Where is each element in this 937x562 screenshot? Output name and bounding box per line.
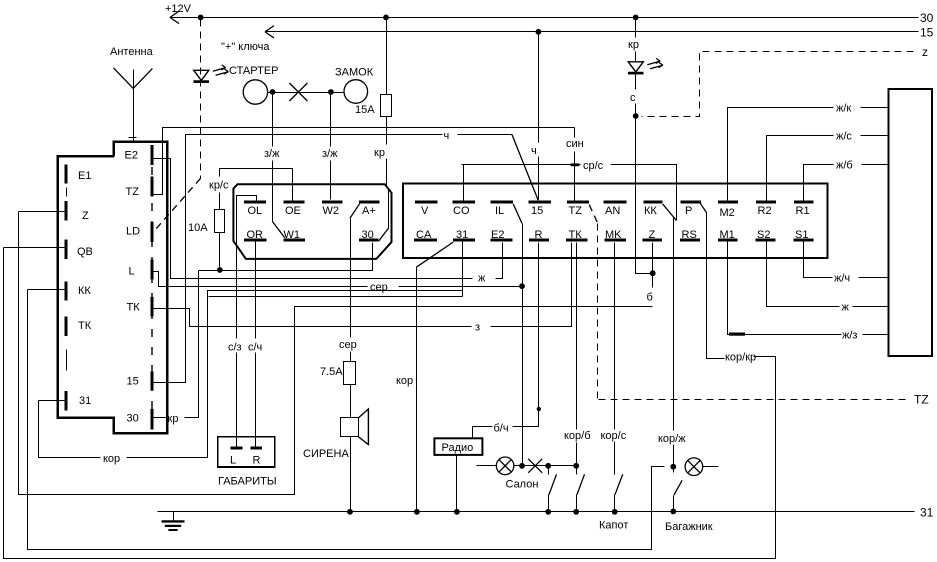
pin TK center xyxy=(566,229,588,241)
svg-text:7.5A: 7.5A xyxy=(320,366,343,378)
node zh-ch label xyxy=(834,273,850,285)
LED HL2 symbol xyxy=(628,58,663,73)
wire pin 31 exit left xyxy=(39,400,67,402)
svg-text:кр/с: кр/с xyxy=(209,180,229,192)
pin RS xyxy=(680,229,700,241)
svg-text:31: 31 xyxy=(79,395,91,407)
junction SA2 rail xyxy=(573,509,579,515)
wire salon line xyxy=(514,465,577,467)
pin KK center xyxy=(643,202,662,217)
svg-text:сер: сер xyxy=(370,282,388,294)
LED HL2 red wire from 30 rail xyxy=(633,15,639,62)
fuse F1 15A body xyxy=(381,95,392,117)
svg-text:кор/с: кор/с xyxy=(601,430,627,442)
svg-text:син: син xyxy=(566,138,584,150)
svg-text:кр: кр xyxy=(374,147,385,159)
svg-text:L: L xyxy=(230,455,236,467)
wire z-zh starter to W1 and OE branch xyxy=(273,93,293,238)
fuse F2 10A label xyxy=(188,222,208,234)
svg-text:Капот: Капот xyxy=(599,520,628,532)
connector X1 left block outline xyxy=(58,142,168,434)
wire salon lamp stub left xyxy=(477,465,497,467)
svg-text:б/ч: б/ч xyxy=(494,423,509,435)
svg-text:Антенна: Антенна xyxy=(110,46,154,58)
svg-text:z: z xyxy=(922,45,928,59)
node kor-b label xyxy=(564,430,591,442)
svg-text:31: 31 xyxy=(920,506,934,520)
svg-text:S1: S1 xyxy=(795,229,808,241)
node +12V label xyxy=(165,3,192,15)
pin P xyxy=(681,202,701,217)
node Antenna label xyxy=(110,46,154,58)
node zh-s label xyxy=(836,131,852,143)
node z label right xyxy=(922,45,928,59)
svg-text:з/ж: з/ж xyxy=(264,148,280,160)
radio box xyxy=(434,438,482,455)
svg-text:30: 30 xyxy=(362,229,374,241)
svg-text:M2: M2 xyxy=(720,207,735,219)
node 15 label right xyxy=(920,26,934,40)
pin OE xyxy=(283,202,304,217)
svg-text:AN: AN xyxy=(605,205,620,217)
pin E1 xyxy=(66,165,91,184)
junction salon IL xyxy=(519,463,525,469)
svg-text:R2: R2 xyxy=(758,205,772,217)
wire LED2 net down to b junction xyxy=(636,117,653,274)
svg-text:R: R xyxy=(253,455,261,467)
fuse F3 7.5A label xyxy=(320,366,343,378)
pin L gabarity xyxy=(230,448,243,467)
pin S1 xyxy=(794,229,814,241)
wire z-zh lock to W2 xyxy=(330,93,332,200)
svg-text:з: з xyxy=(475,322,480,334)
node trunk label xyxy=(665,521,713,533)
svg-text:Салон: Салон xyxy=(506,479,539,491)
node b label xyxy=(647,292,653,304)
wire pin Z exit left xyxy=(19,211,67,213)
junction salon switch A xyxy=(545,463,551,469)
node b-ch label xyxy=(494,423,509,435)
pin 15 left block xyxy=(127,372,152,391)
svg-text:кор/кр: кор/кр xyxy=(725,352,756,364)
svg-text:30: 30 xyxy=(920,11,934,25)
svg-text:кор/б: кор/б xyxy=(564,430,591,442)
connector X3 center block 2 outline xyxy=(403,184,827,259)
svg-text:ТК: ТК xyxy=(78,320,92,332)
siren BA1 symbol xyxy=(341,409,369,445)
left block pin column dashed right xyxy=(151,167,153,427)
wire R1 up zh-b xyxy=(804,165,889,203)
svg-text:TZ: TZ xyxy=(914,393,929,407)
starter label xyxy=(229,65,279,77)
node kor-kr label xyxy=(725,352,756,364)
wire 31 center diagonal to kor xyxy=(417,242,454,511)
svg-text:кор/ж: кор/ж xyxy=(658,433,686,445)
svg-text:P: P xyxy=(685,205,692,217)
pin E2 center xyxy=(491,229,513,241)
wire kr from 30 rail through fuse to pin 30 center xyxy=(379,18,389,242)
wire LED2 cathode down to z junction xyxy=(635,74,637,117)
wire QB return to kor-kr bottom xyxy=(4,248,776,559)
svg-text:кр: кр xyxy=(168,413,179,425)
pin M2 xyxy=(718,202,738,219)
wire M1 down zh-z xyxy=(728,242,889,335)
node 31 label right xyxy=(920,506,934,520)
svg-text:ТК: ТК xyxy=(569,229,583,241)
connector X4 right block xyxy=(889,89,933,356)
node gabarity label xyxy=(218,476,277,488)
svg-text:ч: ч xyxy=(444,130,450,142)
node zh label xyxy=(478,273,486,285)
lamp trunk xyxy=(685,458,718,476)
junction fuse wire on 30 rail xyxy=(383,15,389,21)
wire E2 left to zh line to E2 center xyxy=(153,159,503,297)
svg-text:Багажник: Багажник xyxy=(665,521,713,533)
svg-text:M1: M1 xyxy=(720,229,735,241)
pin TZ left block xyxy=(126,177,152,199)
wire 31 rail xyxy=(158,511,915,513)
svg-text:A+: A+ xyxy=(362,205,376,217)
node kr label LED2 xyxy=(628,39,639,51)
svg-text:TZ: TZ xyxy=(126,186,140,198)
node kor label 1 xyxy=(396,375,413,387)
svg-text:E2: E2 xyxy=(491,229,504,241)
starter circle SW1 xyxy=(243,80,267,104)
node s-ch label xyxy=(248,342,262,354)
svg-text:15: 15 xyxy=(920,26,934,40)
node zh-z label xyxy=(842,330,857,342)
wire Z center down to b junction xyxy=(652,243,654,274)
pin OR xyxy=(244,229,266,241)
pin CO xyxy=(452,202,475,217)
node s label LED2 xyxy=(630,92,636,104)
node ser label 1 xyxy=(370,282,388,294)
svg-text:OE: OE xyxy=(285,205,301,217)
svg-text:с/ч: с/ч xyxy=(248,342,262,354)
wire 31 pin to kor line xyxy=(39,291,463,458)
wire dashed from 30 rail down to LD xyxy=(155,20,201,231)
svg-text:CO: CO xyxy=(453,205,470,217)
svg-text:КК: КК xyxy=(644,205,657,217)
wire KK diagonal to kor-zh down xyxy=(663,204,677,467)
wire 15 rail xyxy=(265,26,919,38)
wire KK return to trunk lamp xyxy=(28,290,665,550)
node kor-s label xyxy=(601,430,627,442)
switch SA1 salon door xyxy=(549,466,557,512)
svg-text:31: 31 xyxy=(456,229,468,241)
node hood label xyxy=(599,520,628,532)
svg-text:ТК: ТК xyxy=(127,302,141,314)
pin W2 xyxy=(322,202,343,217)
svg-text:кор: кор xyxy=(103,453,120,465)
antenna symbol xyxy=(114,68,153,142)
node salon label xyxy=(506,479,539,491)
svg-text:б: б xyxy=(647,292,653,304)
node kor-zh label xyxy=(658,433,686,445)
wire radio top to b-ch xyxy=(473,407,542,439)
wire ch 15 left block to pin 15 center xyxy=(153,135,539,383)
junction lock wire xyxy=(328,89,334,95)
svg-text:+12V: +12V xyxy=(165,3,192,15)
svg-text:СТАРТЕР: СТАРТЕР xyxy=(229,65,279,77)
wire starter to lock with cut symbol xyxy=(268,92,345,94)
cut symbol X salon xyxy=(528,459,542,473)
pin TK left-col xyxy=(66,317,92,337)
wire S1 down zh-ch xyxy=(804,242,889,278)
pin KK left xyxy=(66,282,91,301)
switch SA2 door xyxy=(577,466,585,512)
lock label xyxy=(335,67,374,79)
junction siren rail xyxy=(347,509,353,515)
svg-text:MK: MK xyxy=(605,229,622,241)
junction 15 rail to ch wire xyxy=(536,29,542,35)
node zh-b label xyxy=(836,160,853,172)
svg-text:Z: Z xyxy=(82,210,89,222)
cut symbol X starter-lock xyxy=(289,83,307,101)
svg-text:V: V xyxy=(421,205,429,217)
node radio label xyxy=(442,442,474,454)
node z green label xyxy=(475,322,480,334)
pin CA xyxy=(414,229,437,241)
svg-text:OL: OL xyxy=(248,205,263,217)
pin 31 center xyxy=(453,229,475,241)
wire pin 30 left block kr xyxy=(153,271,199,418)
wire MK down kor-s xyxy=(614,243,616,475)
svg-text:R: R xyxy=(535,229,543,241)
pin MK xyxy=(604,229,625,241)
pin R2 xyxy=(756,202,776,217)
svg-text:RS: RS xyxy=(682,229,697,241)
wire 30 rail xyxy=(170,11,919,23)
svg-text:с: с xyxy=(630,92,636,104)
node TZ label right xyxy=(914,393,929,407)
junction dashed rail on 30 xyxy=(198,15,204,21)
junction starter wire xyxy=(270,89,276,95)
wire CO up to sr-s line xyxy=(462,165,677,221)
node sr-s label xyxy=(583,160,604,172)
pin IL xyxy=(491,202,514,217)
svg-text:сер: сер xyxy=(339,339,357,351)
svg-text:W2: W2 xyxy=(323,205,340,217)
wire 30 net horizontal to center block xyxy=(199,243,373,271)
pin LD xyxy=(126,222,152,242)
connector X2 center block 1 outline xyxy=(233,184,391,259)
junction ser IL xyxy=(519,283,525,289)
svg-text:S2: S2 xyxy=(757,229,770,241)
junction kor rail xyxy=(414,509,420,515)
svg-text:Радио: Радио xyxy=(442,442,474,454)
svg-text:10A: 10A xyxy=(188,222,208,234)
wire gabarity feed xyxy=(209,296,463,298)
pin Z left xyxy=(66,201,89,222)
fuse F2 10A body xyxy=(215,210,225,233)
svg-text:ж/з: ж/з xyxy=(842,330,857,342)
fuse F1 15A label xyxy=(355,104,375,116)
switch SA3 hood xyxy=(615,474,623,511)
svg-text:з/ж: з/ж xyxy=(322,148,338,160)
svg-text:КК: КК xyxy=(78,285,91,297)
pin 30 center xyxy=(359,229,379,241)
wire syn TZ left block to TZ center xyxy=(153,128,580,203)
svg-text:ж/к: ж/к xyxy=(836,103,851,115)
wire M2 up zh-k xyxy=(728,108,889,203)
pin W1 xyxy=(283,229,305,241)
svg-text:ср/с: ср/с xyxy=(583,160,604,172)
fuse F3 7.5A body xyxy=(344,362,356,385)
wire TK center down kor-b xyxy=(576,243,578,466)
wire z dashed rail xyxy=(642,52,914,117)
pin S2 xyxy=(755,229,775,241)
junction SA1 rail xyxy=(545,509,551,515)
wire S2 down zh xyxy=(767,242,889,307)
node kr-s label xyxy=(209,180,229,192)
svg-text:"+" ключа: "+" ключа xyxy=(221,41,270,53)
pin TZ center xyxy=(567,202,589,217)
pin Z center xyxy=(643,229,662,241)
wire L pin to ser line xyxy=(153,272,522,287)
svg-text:Z: Z xyxy=(649,229,656,241)
svg-text:ж: ж xyxy=(478,273,486,285)
svg-text:30: 30 xyxy=(127,413,139,425)
pin TK left block right-col xyxy=(127,297,152,317)
node s-z label xyxy=(228,342,242,354)
svg-text:QB: QB xyxy=(77,246,93,258)
switch SA4 trunk xyxy=(674,467,683,512)
svg-text:CA: CA xyxy=(416,229,432,241)
junction b net xyxy=(650,270,656,276)
pin M1 xyxy=(718,229,737,241)
node kr label pin30 xyxy=(168,413,179,425)
svg-text:R1: R1 xyxy=(796,205,810,217)
wire TK left to z line to TK center xyxy=(153,243,572,327)
wire R2 up zh-s xyxy=(767,136,889,203)
svg-text:ГАБАРИТЫ: ГАБАРИТЫ xyxy=(218,476,277,488)
wire pin KK exit left xyxy=(28,289,67,291)
left block pin column dashed left xyxy=(66,188,68,371)
wire pin QB exit left xyxy=(4,247,67,249)
wire fuse 10A top kr-s xyxy=(220,169,273,271)
svg-text:IL: IL xyxy=(495,205,504,217)
node z-zh label 2 xyxy=(322,148,338,160)
svg-text:E2: E2 xyxy=(125,150,138,162)
wire ch vertical from 15 rail to pin 15 xyxy=(538,32,540,200)
wire radio to ground rail xyxy=(456,455,458,512)
pin 15 center xyxy=(528,202,551,217)
wire Z return to b net bottom xyxy=(19,212,653,495)
svg-text:L: L xyxy=(129,266,135,278)
svg-text:OR: OR xyxy=(247,229,264,241)
ground symbol xyxy=(162,512,185,531)
node kr label fuse wire xyxy=(374,147,385,159)
wire P diagonal down kor-kr xyxy=(701,204,725,359)
svg-text:ж/с: ж/с xyxy=(836,131,852,143)
svg-text:ЗАМОК: ЗАМОК xyxy=(335,67,374,79)
pin R1 xyxy=(794,202,814,217)
pin V xyxy=(415,202,438,217)
node kor label bottom left xyxy=(103,453,120,465)
wire R down to b-ch radio xyxy=(473,243,539,439)
svg-text:15: 15 xyxy=(531,205,543,217)
pin R xyxy=(529,229,549,241)
LED HL1 dashed branch xyxy=(193,65,228,82)
svg-text:с/з: с/з xyxy=(228,342,242,354)
node 30 label right xyxy=(920,11,934,25)
pin 31 left xyxy=(66,391,91,411)
svg-text:ж: ж xyxy=(842,302,850,314)
pin OL xyxy=(244,202,266,217)
pin L left block xyxy=(129,260,152,280)
svg-text:LD: LD xyxy=(126,226,140,238)
junction SA3 rail xyxy=(612,509,618,515)
junction trunk lamp xyxy=(670,464,676,470)
wire siren feed from A+ xyxy=(350,204,360,512)
node siren label xyxy=(303,448,349,460)
lamp salon xyxy=(496,457,514,475)
svg-text:E1: E1 xyxy=(78,170,91,182)
pin E2 left block xyxy=(125,145,152,165)
svg-text:W1: W1 xyxy=(284,229,301,241)
svg-text:15A: 15A xyxy=(355,104,375,116)
pin R gabarity xyxy=(250,448,262,467)
junction fuse 10A bottom xyxy=(217,267,223,273)
lamp box gabarity xyxy=(218,437,275,467)
node syn label xyxy=(566,138,584,150)
svg-text:ж/ч: ж/ч xyxy=(834,273,850,285)
junction salon kor-b xyxy=(573,463,579,469)
svg-text:TZ: TZ xyxy=(569,205,583,217)
pin A+ xyxy=(359,202,380,217)
node zh-k label xyxy=(836,103,851,115)
node ch label 2 xyxy=(531,145,537,157)
node "+" key label xyxy=(221,41,270,53)
svg-text:кр: кр xyxy=(628,39,639,51)
node ser label 2 xyxy=(339,339,357,351)
pin QB xyxy=(66,240,93,260)
wire TZ dashed down to TZ rail xyxy=(589,205,907,400)
node zh label right xyxy=(842,302,850,314)
wire IL diagonal down to salon xyxy=(513,204,522,466)
junction SA4 rail xyxy=(670,509,676,515)
svg-text:ж/б: ж/б xyxy=(836,160,853,172)
svg-text:15: 15 xyxy=(127,376,139,388)
pin AN xyxy=(604,202,627,217)
wire OL hook to s-z xyxy=(237,196,257,447)
svg-text:кор: кор xyxy=(396,375,413,387)
node z-zh label 1 xyxy=(264,148,280,160)
lock circle SW2 xyxy=(344,80,368,104)
junction radio rail xyxy=(454,509,460,515)
wire OR down s-ch xyxy=(255,242,257,447)
junction z dashed meets LED2 xyxy=(633,113,639,119)
node ch label 1 xyxy=(444,130,450,142)
svg-text:ч: ч xyxy=(531,145,537,157)
pin 30 left block xyxy=(127,409,152,430)
svg-text:СИРЕНА: СИРЕНА xyxy=(303,448,349,460)
